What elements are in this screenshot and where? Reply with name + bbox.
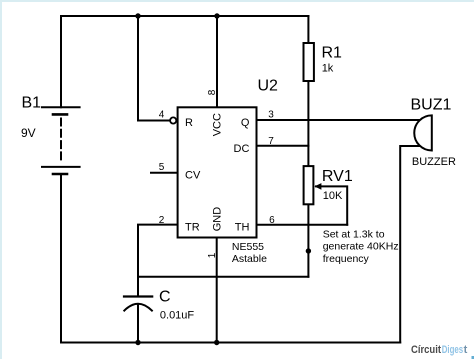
svg-text:1k: 1k — [322, 62, 334, 74]
svg-text:Q: Q — [241, 117, 250, 129]
svg-text:R: R — [185, 117, 193, 129]
svg-text:7: 7 — [268, 136, 274, 147]
svg-text:NE555: NE555 — [232, 241, 264, 253]
svg-text:TH: TH — [235, 221, 250, 233]
svg-text:3: 3 — [268, 109, 274, 120]
svg-text:BUZZER: BUZZER — [412, 156, 456, 168]
svg-text:5: 5 — [159, 162, 165, 173]
svg-text:Astable: Astable — [232, 253, 267, 265]
svg-text:4: 4 — [159, 109, 165, 120]
svg-text:BUZ1: BUZ1 — [411, 97, 452, 114]
svg-text:R1: R1 — [322, 44, 343, 61]
svg-text:Círcuit: Círcuit — [411, 344, 441, 356]
svg-text:8: 8 — [207, 89, 218, 95]
svg-text:generate 40KHz: generate 40KHz — [323, 241, 399, 253]
svg-text:CV: CV — [185, 170, 201, 182]
svg-text:10K: 10K — [323, 190, 343, 202]
svg-text:DC: DC — [234, 143, 250, 155]
svg-text:t: t — [464, 344, 468, 356]
svg-text:9V: 9V — [21, 126, 36, 140]
svg-text:frequency: frequency — [323, 253, 370, 265]
svg-text:TR: TR — [185, 221, 200, 233]
svg-text:GND: GND — [212, 207, 224, 232]
svg-text:2: 2 — [159, 215, 165, 226]
svg-text:1: 1 — [207, 252, 218, 258]
svg-text:Set at 1.3k to: Set at 1.3k to — [323, 228, 385, 240]
svg-text:C: C — [159, 289, 171, 306]
svg-text:RV1: RV1 — [322, 168, 353, 185]
svg-text:VCC: VCC — [212, 113, 224, 136]
svg-text:U2: U2 — [258, 78, 279, 95]
svg-text:6: 6 — [269, 215, 275, 226]
svg-text:B1: B1 — [22, 95, 42, 112]
svg-text:0.01uF: 0.01uF — [160, 310, 195, 322]
svg-text:Diges: Diges — [442, 344, 464, 356]
